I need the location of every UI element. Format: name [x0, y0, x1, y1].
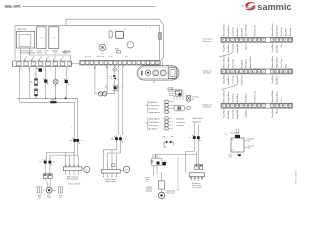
svg-text:Cafe/Brown: Cafe/Brown [149, 105, 159, 107]
PCB buzzer/potentiometer [98, 43, 107, 52]
svg-text:sammic: sammic [257, 2, 291, 12]
svg-text:Motor bomba: Motor bomba [106, 180, 116, 183]
transformer module T2 [225, 129, 244, 153]
svg-text:Gris/Gray: Gris/Gray [281, 28, 283, 37]
contactor KM1 power block [63, 165, 82, 175]
svg-text:Marron/Brown: Marron/Brown [224, 24, 226, 37]
motor M4 [158, 189, 175, 198]
X1 terminal numbers [21, 68, 69, 70]
riser wire B [71, 102, 75, 136]
branch wire jogs [155, 142, 198, 173]
svg-text:MOTOR: MOTOR [85, 56, 92, 58]
relay K1 [37, 27, 46, 49]
supply cable right [52, 187, 63, 194]
contacts K3 [189, 122, 203, 142]
svg-text:Gnd: Gnd [229, 157, 232, 159]
svg-text:Blanco/Wht: Blanco/Wht [193, 117, 203, 120]
svg-text:Rojo/Red: Rojo/Red [272, 75, 274, 83]
svg-text:Blanco/White: Blanco/White [249, 55, 252, 68]
svg-text:Cafe/Brown: Cafe/Brown [149, 122, 159, 124]
sensor wires down [154, 166, 162, 181]
svg-text:Gris/Gray: Gris/Gray [232, 76, 234, 85]
PCB relay RL1 [116, 27, 151, 38]
svg-text:Cafe: Cafe [59, 195, 62, 197]
svg-text:Gris/Gray: Gris/Gray [149, 125, 158, 127]
svg-text:Rojo/Red: Rojo/Red [149, 102, 157, 104]
svg-text:K3: K3 [189, 137, 191, 139]
connector strip X12 [203, 89, 296, 118]
svg-text:Term.block: Term.block [203, 107, 212, 109]
svg-text:KM1: KM1 [69, 140, 72, 142]
J1 wire labels [149, 102, 160, 114]
title text [5, 4, 21, 8]
svg-text:Negro/Black: Negro/Black [149, 112, 160, 114]
pump P1 [82, 166, 90, 174]
svg-text:K2: K2 [45, 52, 47, 54]
run capacitor C2 [174, 106, 192, 111]
svg-text:Azul/Blue: Azul/Blue [176, 117, 185, 120]
svg-text:Trifasico 400V 3~: Trifasico 400V 3~ [68, 184, 80, 186]
svg-text:Azul/Blue: Azul/Blue [276, 75, 279, 84]
svg-text:Blanco: Blanco [246, 43, 248, 50]
svg-text:96: 96 [53, 162, 55, 164]
svg-text:Azul/Blue: Azul/Blue [236, 27, 239, 36]
svg-text:230V 2800W: 230V 2800W [192, 187, 202, 189]
T2 bottom pin [229, 152, 241, 159]
PCB circle component [127, 42, 134, 49]
svg-text:Gris/Gray: Gris/Gray [176, 122, 185, 124]
probe labels [145, 177, 150, 183]
PCB capacitor C1 [109, 31, 112, 38]
svg-text:Negro/Blk: Negro/Blk [237, 76, 239, 85]
wire L1 [19, 67, 21, 103]
svg-text:Negro/Black: Negro/Black [228, 25, 230, 36]
svg-text:Motor principal: Motor principal [67, 178, 79, 181]
fan component [187, 96, 200, 102]
svg-text:Term.block: Term.block [203, 73, 212, 75]
PCB strip pin labels below [94, 66, 125, 68]
control keypad [137, 66, 179, 80]
svg-text:Azul/Blue: Azul/Blue [227, 109, 230, 118]
J2 wire labels right [176, 117, 203, 127]
wire M-a with arrow [94, 65, 99, 94]
motor pair M1 [99, 92, 107, 96]
relay K2 [49, 27, 59, 49]
svg-text:Marron/Brown: Marron/Brown [224, 90, 226, 103]
transformer label [17, 28, 28, 31]
svg-text:Azul: Azul [276, 109, 279, 113]
svg-text:Sonda: Sonda [145, 177, 150, 179]
transformer T1 [16, 31, 34, 48]
svg-text:Negro/Black: Negro/Black [277, 57, 279, 68]
KM1 label text [67, 176, 81, 186]
svg-text:Gris/Gray: Gris/Gray [232, 110, 234, 119]
svg-text:B1: B1 [30, 82, 32, 84]
thermal contacts F3 [40, 158, 55, 173]
cable loop to board [167, 87, 184, 100]
svg-text:8: 8 [201, 137, 202, 139]
svg-text:Gris/Gray: Gris/Gray [281, 59, 283, 68]
svg-text:Blanco/White: Blanco/White [245, 24, 248, 37]
svg-text:ON: ON [110, 78, 112, 80]
svg-text:max: max [171, 136, 174, 138]
wire M-b with arrow [105, 65, 108, 93]
svg-text:Rojo/Red: Rojo/Red [246, 60, 248, 68]
svg-text:230: 230 [225, 134, 228, 136]
svg-text:Azul: Azul [284, 63, 287, 67]
svg-text:Negro/Blk: Negro/Blk [237, 44, 239, 53]
svg-text:Azul/Blue: Azul/Blue [276, 43, 279, 52]
relay module on loop [176, 90, 182, 96]
svg-text:SaSL-1001: SaSL-1001 [5, 4, 21, 8]
sensor wire with thermal protector F1 [109, 65, 116, 85]
svg-text:REL.K1: REL.K1 [37, 52, 43, 54]
svg-text:Azul/Blue: Azul/Blue [284, 27, 287, 36]
svg-text:CONT.: CONT. [37, 50, 42, 52]
svg-text:Rojo/Red: Rojo/Red [290, 28, 292, 36]
drain wire [177, 157, 180, 190]
svg-text:M 3~: M 3~ [47, 195, 51, 197]
svg-text:Board conn.: Board conn. [203, 41, 213, 43]
wire L2 [29, 67, 31, 99]
svg-text:L1: L1 [21, 68, 23, 70]
svg-text:KM2: KM2 [111, 138, 114, 140]
svg-text:Cafe/Brown: Cafe/Brown [241, 75, 243, 85]
connector J2 [145, 117, 173, 130]
svg-text:Negro/Black: Negro/Black [277, 91, 279, 102]
svg-text:Gris/Gray: Gris/Gray [232, 44, 234, 53]
keypad cable stub [153, 79, 154, 83]
KM2 label text [105, 178, 117, 183]
title underline [23, 5, 245, 8]
svg-text:Azul/Blue: Azul/Blue [227, 43, 230, 52]
svg-text:COIL: COIL [53, 52, 57, 54]
svg-text:230V: 230V [47, 197, 51, 199]
enclosure panel outline [15, 25, 160, 61]
svg-text:Gris/Gray: Gris/Gray [149, 109, 158, 111]
motor M2 labels [38, 194, 62, 199]
pilot lamp H1 [53, 67, 58, 99]
svg-text:Rojo 12V: Rojo 12V [248, 146, 254, 148]
overload relay OL1 [43, 174, 52, 188]
svg-text:Rojo/Red: Rojo/Red [224, 75, 226, 83]
terminal strip X1 [12, 61, 72, 67]
svg-text:Red: Red [248, 148, 251, 150]
svg-text:Masa: Masa [229, 155, 233, 157]
PCB terminal strip labels [85, 56, 129, 58]
keypad wires to PCB [157, 61, 163, 66]
diagonal link 1 [219, 54, 232, 58]
svg-text:Fan: Fan [192, 99, 195, 101]
supply cable left [36, 187, 46, 194]
PCB terminal strip X2 [80, 60, 160, 65]
svg-text:Marron/Brown: Marron/Brown [224, 55, 226, 68]
svg-text:Rojo/Red: Rojo/Red [272, 109, 274, 117]
switch branch with contact S1 [34, 67, 42, 79]
svg-text:Rojo/Red: Rojo/Red [272, 43, 274, 51]
arrow wires to terminal strip X1 [24, 56, 64, 61]
svg-text:Cafe/Brn: Cafe/Brn [246, 110, 248, 118]
bus N1 [17, 97, 77, 99]
svg-text:Azul/Blue: Azul/Blue [240, 59, 243, 68]
svg-text:F3: F3 [40, 162, 42, 164]
svg-text:Negro/Black: Negro/Black [277, 25, 279, 36]
contactor KM2 power block [102, 169, 121, 177]
svg-text:2-4: 2-4 [81, 140, 83, 142]
PCB tick marks [97, 43, 108, 54]
enclosure wiring labels [20, 49, 71, 54]
svg-text:ALIM: ALIM [115, 48, 120, 51]
thermal switch F2 [107, 85, 121, 93]
PCB connector label block [115, 48, 121, 53]
connector J1 [145, 100, 177, 113]
contact K1a [43, 67, 48, 99]
KM2 wire jogs [103, 143, 120, 169]
level sensor cluster B2 [151, 155, 167, 166]
contactor contacts KM1 [69, 137, 83, 146]
svg-text:Negro/Black: Negro/Black [228, 91, 230, 102]
contact K2a [64, 67, 70, 99]
motor M3 [120, 166, 130, 172]
document number vertical [295, 169, 297, 184]
svg-text:Blanco/White: Blanco/White [271, 89, 274, 102]
J2 wire labels left [149, 118, 160, 130]
svg-text:In: In [225, 132, 226, 134]
fuses F4 [195, 164, 203, 169]
svg-text:Negro/Blk: Negro/Blk [237, 110, 239, 119]
svg-text:Verde/Green: Verde/Green [255, 25, 257, 36]
svg-text:Drain pump: Drain pump [167, 193, 175, 195]
motor M2 [46, 187, 52, 193]
svg-text:KLX: KLX [109, 76, 112, 78]
svg-text:Rojo/Red: Rojo/Red [224, 43, 226, 51]
svg-text:2: 2 [57, 68, 58, 70]
heater block [189, 173, 204, 181]
svg-text:2805 / 3020651: 2805 / 3020651 [295, 169, 297, 184]
transformer secondary wires [20, 48, 29, 61]
collector rail wire [29, 55, 71, 61]
svg-text:Marron/Brown: Marron/Brown [272, 24, 274, 37]
thermostat min-max cluster [163, 136, 174, 149]
svg-text:Azul/Blue: Azul/Blue [236, 93, 239, 102]
power PCB A1 outline (3D) [66, 19, 163, 60]
svg-text:min max: min max [152, 155, 158, 157]
contactor contacts KM2 [111, 135, 126, 144]
svg-text:Gris: Gris [281, 98, 283, 102]
svg-text:Azul/Blue: Azul/Blue [149, 128, 158, 131]
svg-text:M1: M1 [105, 86, 107, 88]
gearbox box [158, 181, 164, 189]
svg-text:INT.SEGUR: INT.SEGUR [20, 50, 29, 52]
svg-text:C.T: C.T [118, 86, 120, 88]
svg-text:Rojo/Red: Rojo/Red [241, 28, 243, 36]
svg-text:min: min [163, 136, 166, 138]
svg-text:Rojo/Red: Rojo/Red [246, 94, 248, 102]
Sammic logo [245, 2, 291, 12]
connector strip X10 [203, 24, 296, 53]
svg-text:Verde/Green: Verde/Green [255, 91, 257, 102]
svg-text:2-4: 2-4 [124, 138, 126, 140]
bus N2 with ground label [20, 99, 75, 104]
riser wire A [78, 98, 80, 136]
svg-text:Cafe/Brn: Cafe/Brn [176, 125, 184, 127]
feed wires to lower-right group [118, 65, 124, 135]
svg-text:Rojo/Red: Rojo/Red [193, 121, 201, 123]
svg-text:Blanco/White: Blanco/White [271, 55, 274, 68]
KM1 wire jogs [46, 145, 78, 167]
PCB edge slot connector [159, 33, 162, 40]
svg-text:Azul/Blue: Azul/Blue [227, 75, 230, 84]
svg-text:Gris: Gris [281, 44, 283, 48]
svg-text:Gris/Gray: Gris/Gray [232, 59, 234, 68]
svg-text:12V: 12V [248, 141, 251, 143]
svg-text:Gris/Gray: Gris/Gray [232, 94, 234, 103]
svg-text:Gris/Gray: Gris/Gray [232, 28, 234, 37]
coil R2 [34, 85, 37, 98]
svg-text:Negro/Black: Negro/Black [149, 118, 160, 120]
PCB left edge connector [62, 51, 70, 54]
probe cable [146, 187, 152, 192]
resistor note text [192, 182, 202, 189]
svg-text:Blue: Blue [38, 197, 41, 199]
connector strip X11 [203, 55, 296, 85]
svg-text:Rojo/Red: Rojo/Red [224, 109, 226, 117]
svg-text:Negro/Black: Negro/Black [228, 57, 230, 68]
svg-text:CONT.: CONT. [43, 50, 48, 52]
diagonal link 2 [222, 85, 237, 90]
coil R1 [30, 79, 37, 86]
link wire strip X1 to PCB strip [67, 62, 80, 66]
T2 right pins [244, 137, 254, 149]
svg-text:LED PWR: LED PWR [97, 56, 105, 58]
